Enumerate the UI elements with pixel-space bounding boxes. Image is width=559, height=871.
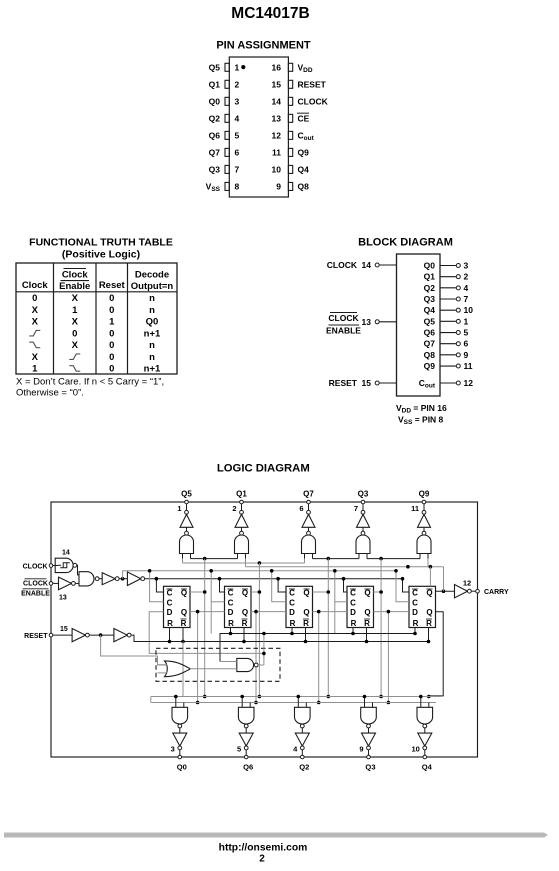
OR gate feedback xyxy=(165,661,191,677)
bottom bus B y=702.5 xyxy=(151,702,436,704)
clock bus y=578.7 xyxy=(145,578,403,580)
FF2 wire Q-bar to decode xyxy=(251,591,259,593)
svg-text:C: C xyxy=(167,599,173,608)
FF5 wire Q-bar to carry xyxy=(436,590,455,592)
svg-text:C: C xyxy=(289,589,295,598)
svg-text:10: 10 xyxy=(411,745,419,754)
svg-text:5: 5 xyxy=(237,745,241,754)
NAND gate feedback xyxy=(237,658,254,671)
svg-text:R: R xyxy=(181,619,187,628)
svg-text:Q2: Q2 xyxy=(209,114,221,124)
pin 6 (left) xyxy=(225,148,229,156)
svg-text:Q6: Q6 xyxy=(424,328,436,338)
svg-text:R: R xyxy=(290,619,296,628)
pin 7 (left) xyxy=(225,165,229,173)
svg-text:15: 15 xyxy=(272,80,282,90)
svg-text:X: X xyxy=(32,352,39,363)
NAND gate Q9 decode xyxy=(422,531,426,535)
FF1 wire C input xyxy=(150,571,164,602)
svg-text:16: 16 xyxy=(272,63,282,73)
pin 8 (left) xyxy=(225,182,229,190)
svg-text:n: n xyxy=(149,305,155,316)
svg-text:7: 7 xyxy=(354,504,358,513)
svg-text:Reset: Reset xyxy=(99,280,126,291)
svg-text:CLOCK: CLOCK xyxy=(328,313,359,323)
svg-text:CLOCK: CLOCK xyxy=(327,260,358,270)
svg-text:9: 9 xyxy=(464,350,469,360)
NAND gate Q3 decode xyxy=(361,531,365,535)
svg-text:CLOCK: CLOCK xyxy=(23,564,48,571)
FF5 reset stubs xyxy=(414,628,416,634)
wire run y=566.7 g2-carry xyxy=(245,559,247,567)
svg-text:Q: Q xyxy=(181,589,187,598)
svg-text:1: 1 xyxy=(177,504,181,513)
svg-text:Q4: Q4 xyxy=(424,305,436,315)
svg-text:MC14017B: MC14017B xyxy=(231,5,309,22)
svg-text:C: C xyxy=(412,589,418,598)
svg-text:9: 9 xyxy=(276,182,281,192)
svg-text:Q7: Q7 xyxy=(424,339,436,349)
truth table frame xyxy=(16,263,177,374)
pin 15 (right) xyxy=(288,80,292,88)
inverter carry output xyxy=(455,585,468,598)
wire NAND output feedback xyxy=(258,664,264,666)
svg-text:8: 8 xyxy=(235,182,240,192)
svg-text:0: 0 xyxy=(72,328,77,339)
svg-text:Q6: Q6 xyxy=(243,763,253,772)
inverter to pin 10 xyxy=(418,733,432,746)
svg-text:Q: Q xyxy=(242,608,248,617)
svg-text:Q: Q xyxy=(181,608,187,617)
svg-text:PIN ASSIGNMENT: PIN ASSIGNMENT xyxy=(216,40,311,52)
svg-text:Q1: Q1 xyxy=(236,490,247,499)
svg-text:Q5: Q5 xyxy=(209,63,221,73)
svg-text:2: 2 xyxy=(464,272,469,282)
svg-text:Q4: Q4 xyxy=(422,763,433,772)
wire OR out to NAND xyxy=(190,668,237,670)
NAND gate Q4 decode (bottom) xyxy=(420,697,422,708)
svg-text:Q9: Q9 xyxy=(424,361,436,371)
svg-text:X = Don’t Care. If n < 5 Carry: X = Don’t Care. If n < 5 Carry = “1”, xyxy=(16,377,164,388)
inverter to pin 1 xyxy=(185,510,189,514)
svg-text:2: 2 xyxy=(259,854,265,865)
FF2 reset stubs xyxy=(230,628,232,634)
svg-text:4: 4 xyxy=(464,283,469,293)
svg-text:D: D xyxy=(289,608,295,617)
svg-text:RESET: RESET xyxy=(298,80,327,90)
svg-text:2: 2 xyxy=(232,504,236,513)
pin 11 (right) xyxy=(288,148,292,156)
svg-text:R: R xyxy=(167,619,173,628)
pin 10 (right) xyxy=(288,165,292,173)
NAND clock gating xyxy=(79,572,94,586)
FF1 wire C-bar input xyxy=(156,579,163,592)
svg-text:R: R xyxy=(242,619,248,628)
svg-text:1: 1 xyxy=(72,305,78,316)
FF5 wire C-bar input xyxy=(403,579,410,592)
pin 1 (left) xyxy=(225,63,229,71)
svg-text:10: 10 xyxy=(464,305,474,315)
svg-text:Q: Q xyxy=(303,608,309,617)
svg-text:6: 6 xyxy=(464,339,469,349)
svg-text:R: R xyxy=(351,619,357,628)
svg-text:Q: Q xyxy=(426,589,432,598)
svg-text:R: R xyxy=(426,619,432,628)
svg-text:Q4: Q4 xyxy=(298,165,310,175)
svg-text:14: 14 xyxy=(62,550,70,557)
svg-text:0: 0 xyxy=(109,340,114,351)
FF5 wire C input xyxy=(396,571,409,602)
svg-text:C: C xyxy=(228,589,234,598)
pin 2 (left) xyxy=(225,80,229,88)
svg-text:6: 6 xyxy=(235,148,240,158)
FF1 wire Q output to D of FF2 xyxy=(190,611,225,613)
FF3 reset stubs xyxy=(291,628,293,634)
reset bus R y=632.5 xyxy=(220,634,415,662)
svg-text:RESET: RESET xyxy=(24,633,48,640)
svg-text:Q0: Q0 xyxy=(424,261,436,271)
svg-text:Otherwise = “0”.: Otherwise = “0”. xyxy=(16,388,84,399)
svg-text:3: 3 xyxy=(464,261,469,271)
svg-text:13: 13 xyxy=(362,317,372,327)
FF4 wire C input xyxy=(335,601,347,603)
pin 3 (left) xyxy=(225,97,229,105)
svg-text:C: C xyxy=(412,599,418,608)
FF3 wire Q output to D of FF4 xyxy=(313,611,348,613)
svg-text:1: 1 xyxy=(464,316,469,326)
FF4 wire C-bar input xyxy=(344,579,348,592)
svg-text:D: D xyxy=(350,608,356,617)
svg-text:n: n xyxy=(149,340,155,351)
flip-flop FF4 xyxy=(347,586,374,627)
FF2 wire C input xyxy=(211,601,224,603)
svg-text:n: n xyxy=(149,293,155,304)
svg-text:R: R xyxy=(303,619,309,628)
svg-text:R: R xyxy=(413,619,419,628)
svg-text:11: 11 xyxy=(272,148,281,158)
svg-text:Q0: Q0 xyxy=(146,317,159,328)
svg-text:R: R xyxy=(364,619,370,628)
svg-text:15: 15 xyxy=(362,378,372,388)
svg-text:0: 0 xyxy=(109,305,114,316)
svg-text:Enable: Enable xyxy=(59,281,90,292)
svg-text:CLOCK: CLOCK xyxy=(298,97,329,107)
inverter to pin 4 xyxy=(295,733,309,746)
FF4 reset stubs xyxy=(352,628,354,634)
NAND gate Q0 decode (bottom) xyxy=(175,697,177,708)
svg-text:7: 7 xyxy=(464,294,469,304)
pin 9 (right) xyxy=(288,182,292,190)
pin 12 (right) xyxy=(288,131,292,139)
flip-flop FF5 xyxy=(409,586,436,627)
inverter to pin 5 xyxy=(239,733,253,746)
FF2 wire Q output to D of FF3 xyxy=(251,611,286,613)
svg-text:C: C xyxy=(228,599,234,608)
svg-text:14: 14 xyxy=(362,260,372,270)
svg-text:Q: Q xyxy=(242,589,248,598)
svg-text:0: 0 xyxy=(109,328,114,339)
svg-text:FUNCTIONAL TRUTH TABLE: FUNCTIONAL TRUTH TABLE xyxy=(29,237,173,249)
svg-text:6: 6 xyxy=(299,504,303,513)
svg-text:Clock: Clock xyxy=(62,270,89,281)
pin 13 (right) xyxy=(288,114,292,122)
svg-text:1: 1 xyxy=(109,317,115,328)
NAND gate Q2 decode (bottom) xyxy=(297,697,299,708)
svg-text:0: 0 xyxy=(32,293,37,304)
flip-flop FF3 xyxy=(286,586,313,627)
svg-text:Clock: Clock xyxy=(22,280,49,291)
svg-text:Q8: Q8 xyxy=(424,350,436,360)
svg-text:X: X xyxy=(72,340,79,351)
svg-text:0: 0 xyxy=(109,364,114,375)
IC package body xyxy=(229,57,288,197)
svg-text:Q: Q xyxy=(364,608,370,617)
svg-text:Q3: Q3 xyxy=(424,294,436,304)
inverter clock-enable xyxy=(59,577,72,590)
inverter to pin 2 xyxy=(240,510,244,514)
schmitt trigger clock buffer xyxy=(55,558,73,572)
svg-text:ENABLE: ENABLE xyxy=(21,591,50,598)
svg-text:2: 2 xyxy=(235,80,240,90)
svg-text:14: 14 xyxy=(272,97,282,107)
wire NAND upper input xyxy=(220,661,237,663)
wire D input FF1 feedback xyxy=(149,612,264,659)
svg-text:Q5: Q5 xyxy=(424,316,436,326)
FF1 wire Q-bar to decode xyxy=(190,591,205,593)
svg-text:0: 0 xyxy=(109,352,114,363)
inverter to pin 6 xyxy=(307,510,311,514)
svg-text:X: X xyxy=(72,293,79,304)
FF4 wire Q-bar to decode xyxy=(374,591,382,593)
wire run y=558.6 g3-g4 xyxy=(313,558,360,560)
FF4 wire Q output to D of FF5 xyxy=(374,611,410,613)
svg-text:LOGIC DIAGRAM: LOGIC DIAGRAM xyxy=(217,463,310,475)
svg-text:10: 10 xyxy=(272,165,282,175)
inverter to pin 7 xyxy=(361,510,365,514)
wire reset to OR gate xyxy=(101,635,166,665)
svg-text:D: D xyxy=(167,608,173,617)
wire run y=563 g1-g3 xyxy=(182,559,184,563)
inverter to pin 3 xyxy=(173,733,187,746)
table row 5 xyxy=(29,342,40,348)
svg-text:5: 5 xyxy=(235,131,240,141)
wire Q-bar5 feedback up xyxy=(429,567,431,587)
svg-text:Q0: Q0 xyxy=(209,97,221,107)
inverter reset buffer 1 xyxy=(72,629,85,642)
svg-text:9: 9 xyxy=(359,745,363,754)
svg-text:4: 4 xyxy=(235,114,240,124)
svg-text:C: C xyxy=(350,589,356,598)
svg-text:CARRY: CARRY xyxy=(484,589,509,596)
svg-text:n: n xyxy=(149,352,155,363)
inverter to pin 9 xyxy=(362,733,376,746)
svg-text:12: 12 xyxy=(463,579,471,588)
FF3 wire Q-bar to decode xyxy=(313,591,329,593)
svg-text:5: 5 xyxy=(464,328,469,338)
svg-text:7: 7 xyxy=(235,165,240,175)
svg-text:Q7: Q7 xyxy=(303,490,314,499)
svg-text:1: 1 xyxy=(32,364,38,375)
svg-text:3: 3 xyxy=(235,97,240,107)
dashed feedback box xyxy=(156,648,280,681)
flip-flop FF1 xyxy=(164,586,191,627)
footer rule xyxy=(4,833,548,838)
NAND gate Q6 decode (bottom) xyxy=(241,697,243,708)
svg-text:CLOCK: CLOCK xyxy=(23,581,48,588)
svg-text:R: R xyxy=(228,619,234,628)
svg-text:ENABLE: ENABLE xyxy=(326,326,361,336)
svg-text:15: 15 xyxy=(60,626,68,633)
svg-text:n+1: n+1 xyxy=(144,328,161,339)
pin 5 (left) xyxy=(225,131,229,139)
svg-text:Q: Q xyxy=(364,589,370,598)
long vertical taps from clock bus xyxy=(210,571,212,634)
svg-text:11: 11 xyxy=(411,504,419,513)
svg-text:Q9: Q9 xyxy=(298,148,310,158)
svg-text:0: 0 xyxy=(109,293,114,304)
svg-text:http://onsemi.com: http://onsemi.com xyxy=(219,843,308,854)
svg-text:3: 3 xyxy=(171,745,175,754)
svg-text:Q8: Q8 xyxy=(298,182,310,192)
FF3 wire C-bar input xyxy=(278,579,286,592)
svg-text:Q0: Q0 xyxy=(177,763,187,772)
svg-text:(Positive Logic): (Positive Logic) xyxy=(62,249,140,261)
svg-text:Q3: Q3 xyxy=(365,763,375,772)
svg-text:Q3: Q3 xyxy=(358,490,369,499)
table row 4 xyxy=(29,330,40,336)
svg-text:Q6: Q6 xyxy=(209,131,221,141)
svg-text:D: D xyxy=(412,608,418,617)
FF1 reset stubs xyxy=(169,628,171,642)
NAND gate Q5 decode xyxy=(185,531,189,535)
wire run y=558.6 g1-g2 xyxy=(191,558,238,560)
svg-text:Q5: Q5 xyxy=(181,490,192,499)
svg-text:Q2: Q2 xyxy=(299,763,309,772)
svg-text:12: 12 xyxy=(272,131,282,141)
pin 4 (left) xyxy=(225,114,229,122)
svg-text:Q: Q xyxy=(426,608,432,617)
wire run y=558.6 g4-g5 xyxy=(367,558,420,560)
svg-text:C: C xyxy=(289,599,295,608)
FF2 wire C-bar input xyxy=(220,579,225,592)
svg-text:RESET: RESET xyxy=(329,378,358,388)
svg-text:Q1: Q1 xyxy=(209,80,221,90)
reset bus R-bar y=641 xyxy=(131,635,428,641)
flip-flop FF2 xyxy=(225,586,252,627)
svg-text:Q2: Q2 xyxy=(424,283,436,293)
svg-text:Q1: Q1 xyxy=(424,272,436,282)
svg-text:Q: Q xyxy=(303,589,309,598)
svg-text:BLOCK DIAGRAM: BLOCK DIAGRAM xyxy=(358,237,453,249)
svg-text:Q7: Q7 xyxy=(209,148,221,158)
svg-text:C: C xyxy=(350,599,356,608)
svg-text:Decode: Decode xyxy=(135,270,169,281)
NAND gate Q1 decode xyxy=(240,531,244,535)
svg-text:Q3: Q3 xyxy=(209,165,221,175)
logic diagram border xyxy=(51,502,478,757)
svg-text:13: 13 xyxy=(59,595,67,602)
FF5 wire Q output down to decode xyxy=(429,612,443,696)
svg-text:1: 1 xyxy=(235,63,240,73)
svg-text:X: X xyxy=(72,317,79,328)
svg-text:CE: CE xyxy=(298,114,310,124)
pin 14 (right) xyxy=(288,97,292,105)
svg-text:C: C xyxy=(167,589,173,598)
bottom bus A y=696.5 xyxy=(151,696,442,698)
pin 1 index dot xyxy=(241,65,245,69)
clock bus (inverted) y=570.8 xyxy=(123,571,396,579)
inverter reset buffer 2 xyxy=(114,629,127,642)
svg-text:n+1: n+1 xyxy=(144,364,161,375)
svg-text:12: 12 xyxy=(464,378,474,388)
FF3 wire C input xyxy=(272,571,286,602)
svg-text:X: X xyxy=(32,305,39,316)
block diagram body xyxy=(397,254,441,396)
svg-text:D: D xyxy=(228,608,234,617)
svg-text:X: X xyxy=(32,317,39,328)
svg-text:13: 13 xyxy=(272,114,282,124)
svg-text:11: 11 xyxy=(464,361,473,371)
NAND gate Q7 decode xyxy=(307,531,311,535)
pin 16 (right) xyxy=(288,63,292,71)
inverter to pin 11 xyxy=(422,510,426,514)
inverter clock buffer 1 xyxy=(102,573,115,585)
svg-text:Output=n: Output=n xyxy=(131,281,174,292)
NAND gate Q3 decode (bottom) xyxy=(364,697,366,708)
inverter clock buffer 2 xyxy=(127,572,140,586)
svg-text:Q9: Q9 xyxy=(419,490,430,499)
